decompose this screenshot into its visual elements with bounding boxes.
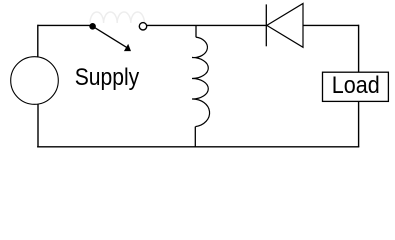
diode D triangle <box>267 4 303 48</box>
wire left vertical (top rail down to supply top) <box>37 25 39 58</box>
supply source circle <box>11 57 59 105</box>
switch blade (arrow line) <box>93 26 127 47</box>
switch blade arrowhead <box>124 44 131 51</box>
node inductor top junction <box>195 25 197 37</box>
svg-text:Supply: Supply <box>75 64 140 91</box>
diode D cathode bar <box>265 4 267 46</box>
inductor L coil <box>192 37 210 127</box>
wire left vertical (supply bottom to bottom rail) <box>37 104 39 147</box>
wire diode anode to top-right corner <box>303 24 359 26</box>
switch pole node (filled dot) <box>89 23 96 30</box>
wire top-left horizontal (supply to switch pole) <box>38 24 93 26</box>
wire inductor bottom to bottom rail <box>194 127 196 147</box>
wire right vertical (top rail to load top) <box>358 25 360 73</box>
svg-text:Load: Load <box>332 72 380 99</box>
load box <box>323 72 389 101</box>
faint ghost coil artifact <box>90 12 144 23</box>
switch open terminal (open circle) <box>139 23 146 30</box>
wire bottom rail <box>37 146 359 148</box>
wire top rail (switch terminal to diode cathode) <box>147 24 266 26</box>
wire right vertical (load bottom to bottom rail) <box>358 101 360 147</box>
